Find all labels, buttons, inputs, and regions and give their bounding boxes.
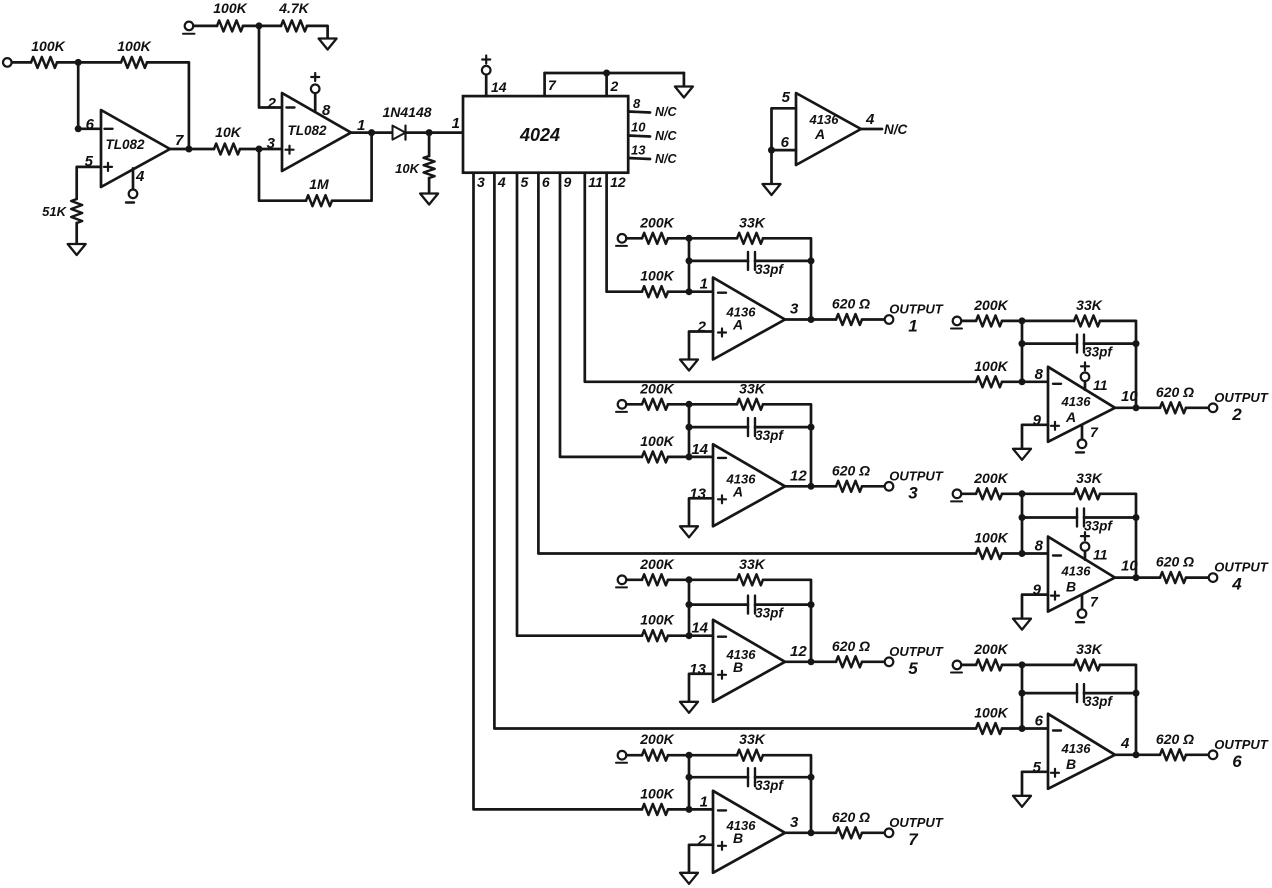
wire (stage 1) [668,290,713,293]
svg-text:1M: 1M [309,176,329,192]
svg-text:6: 6 [781,134,790,151]
wire (stage 7) [668,808,713,811]
svg-text:4.7K: 4.7K [278,0,309,16]
svg-text:100K: 100K [117,38,151,54]
OUTPUT 1 label [889,302,944,336]
node junction [368,129,375,136]
svg-text:9: 9 [564,174,572,190]
svg-text:33K: 33K [1076,470,1103,486]
wire (stage 6) [1002,664,1074,667]
wire pin2 [259,26,282,108]
svg-text:6: 6 [86,116,95,133]
resistor 33K (stage 1) [737,214,766,244]
op-amp 4136 A (stage 1) [697,276,799,360]
svg-text:A: A [814,126,825,142]
ground (stage 1) [680,360,698,371]
wire (stage 3) [862,485,885,488]
op-amp 4136 B (stage 4) [1033,537,1139,612]
resistor 620 ohm (stage 1) [832,296,870,326]
resistor 33K (stage 6) [1074,641,1103,671]
output terminal (stage 4) [1209,573,1218,582]
node junction [426,129,433,136]
capacitor 33pf (stage 4) [1077,509,1113,534]
node junction (stage 7) [808,774,815,781]
svg-text:10: 10 [1121,388,1138,405]
wire output (stage 1) [785,318,836,321]
svg-text:2: 2 [697,832,707,849]
wire pin5 [772,108,797,184]
wire plus input (stage 3) [689,498,713,526]
V+ terminal pin11 (stage 4) [1081,532,1090,551]
svg-text:A: A [732,483,743,499]
svg-text:100K: 100K [974,705,1008,721]
OUTPUT 4 label [1214,560,1269,594]
wire (stage 5) [668,578,737,581]
svg-text:200K: 200K [973,641,1008,657]
node junction (stage 2) [1019,340,1026,347]
wire plus input (stage 6) [1022,772,1048,796]
node junction (stage 2) [1019,317,1026,324]
svg-text:1: 1 [908,317,917,336]
svg-text:8: 8 [1035,538,1044,555]
wire from 4024 pin (stage 4) [538,173,976,554]
wire (stage 1) [627,237,643,240]
node junction (stage 4) [1133,574,1140,581]
wire pin14 [485,75,488,97]
terminal (stage 7) [616,751,627,763]
svg-text:33pf: 33pf [755,606,784,621]
svg-text:33pf: 33pf [755,262,784,277]
node junction (stage 4) [1019,490,1026,497]
node junction (stage 5) [808,658,815,665]
resistor 200K (stage 5) [639,556,674,586]
wire (stage 5) [862,660,885,663]
terminal (stage 5) [616,576,627,588]
op-amp 4136 B (stage 5) [689,620,807,702]
resistor 620 ohm (stage 2) [1156,384,1194,414]
node junction (stage 5) [808,601,815,608]
node junction [603,70,610,77]
wire node column (stage 6) [1021,665,1024,729]
wire [78,62,101,128]
wire output (stage 7) [785,831,836,834]
resistor 100K (stage 1) [640,268,674,298]
node junction (stage 6) [1019,725,1026,732]
svg-text:620 Ω: 620 Ω [1156,554,1194,570]
OUTPUT 5 label [889,644,944,678]
wire pin8 [314,93,317,112]
wire output (stage 5) [785,660,836,663]
node junction (stage 7) [808,829,815,836]
svg-text:10K: 10K [395,161,420,176]
node junction (stage 3) [686,401,693,408]
op-amp 4136 A (stage 2) [1033,366,1139,442]
resistor 620 ohm (stage 3) [832,462,870,492]
pin 8 stub N/C [628,96,677,119]
wire (stage 7) [627,754,643,757]
op-amp 4136 A unused [781,89,875,165]
svg-text:14: 14 [491,79,507,95]
svg-text:33pf: 33pf [755,778,784,793]
svg-text:4: 4 [135,168,145,185]
node junction (stage 1) [686,257,693,264]
svg-text:7: 7 [175,132,184,149]
wire [683,73,686,87]
wire (stage 7) [763,755,811,833]
pin 5 label [521,174,529,190]
svg-text:14: 14 [691,441,708,458]
wire [240,148,282,151]
wire (stage 5) [627,578,643,581]
node junction (stage 5) [686,632,693,639]
capacitor 33pf (stage 6) [1077,684,1113,709]
V- terminal pin4 [126,190,137,203]
svg-text:33pf: 33pf [1084,694,1113,709]
resistor 200K (stage 2) [973,297,1008,327]
wire feedback [259,149,306,201]
node junction (stage 4) [1019,514,1026,521]
pin 4 label [497,174,506,190]
svg-text:33K: 33K [739,731,766,747]
svg-text:2: 2 [1231,405,1242,424]
wire from 4024 pin (stage 6) [494,173,976,729]
wire (stage 3) [668,403,737,406]
resistor 200K (stage 6) [973,641,1008,671]
ground [420,194,438,205]
resistor 51K [42,199,82,223]
output terminal (stage 2) [1209,404,1218,413]
svg-text:7: 7 [1090,424,1099,440]
node junction (stage 5) [686,601,693,608]
svg-text:11: 11 [1093,547,1108,563]
wire V- pin7 (stage 4) [1081,595,1084,610]
pin 11 label [588,174,603,190]
wire (stage 4) [962,492,977,495]
svg-text:33K: 33K [739,380,766,396]
wire plus input (stage 7) [689,845,713,873]
svg-text:1: 1 [700,276,708,293]
wire (stage 1) [862,318,885,321]
op-amp 4136 B (stage 6) [1033,713,1130,789]
svg-text:8: 8 [633,96,641,111]
svg-text:200K: 200K [973,470,1008,486]
svg-text:200K: 200K [639,731,674,747]
capacitor 33pf (stage 2) [1077,335,1113,360]
wire (stage 7) [689,776,748,779]
svg-text:N/C: N/C [655,129,678,143]
svg-text:620 Ω: 620 Ω [832,296,870,312]
output terminal (stage 6) [1209,751,1218,760]
svg-text:13: 13 [689,661,706,678]
wire from 4024 pin (stage 3) [560,173,642,457]
svg-text:TL082: TL082 [105,137,145,152]
svg-text:8: 8 [1035,366,1044,383]
wire node column (stage 5) [688,580,691,636]
wire (stage 4) [1022,516,1077,519]
wire [406,131,464,134]
pin 7 label (stage 4) [1090,594,1099,610]
node junction (stage 3) [686,453,693,460]
node junction (stage 2) [1019,378,1026,385]
ground (stage 4) [1013,619,1031,630]
wire V+ pin11 (stage 2) [1084,381,1087,390]
svg-text:100K: 100K [640,268,674,284]
wire V+ pin11 (stage 4) [1084,551,1087,560]
wire (stage 5) [668,634,713,637]
output terminal (stage 7) [885,829,894,838]
wire output (stage 6) [1115,753,1160,756]
wire plus input (stage 4) [1022,595,1048,619]
wire from 4024 pin (stage 2) [585,173,976,382]
resistor 33K (stage 3) [737,380,766,410]
svg-text:B: B [1066,756,1076,772]
ground [68,244,86,255]
node 1 label [452,115,460,132]
wire [307,26,328,39]
wire (stage 1) [668,237,737,240]
svg-text:6: 6 [1232,752,1242,771]
capacitor 33pf (stage 1) [748,252,784,277]
svg-text:11: 11 [1093,377,1108,393]
node junction (stage 6) [1019,661,1026,668]
svg-text:100K: 100K [974,530,1008,546]
svg-text:OUTPUT: OUTPUT [889,644,944,659]
svg-text:620 Ω: 620 Ω [832,638,870,654]
resistor 200K (stage 7) [639,731,674,761]
node junction (stage 1) [808,316,815,323]
V+ terminal pin8 [311,73,320,93]
svg-text:5: 5 [521,174,529,190]
pin 3 label [477,174,485,190]
svg-text:10: 10 [1121,558,1138,575]
svg-text:100K: 100K [974,358,1008,374]
OUTPUT 7 label [889,815,944,849]
wire [75,223,78,244]
ground [319,39,337,50]
pin 10 stub N/C [628,120,677,144]
node junction (stage 4) [1019,550,1026,557]
wire from 4024 pin (stage 1) [607,173,642,292]
wire pin2 [605,73,608,96]
OUTPUT 3 label [889,468,944,502]
resistor 100K (stage 5) [640,612,674,642]
wire output (stage 4) [1115,576,1160,579]
svg-text:4136: 4136 [1061,564,1092,579]
svg-text:13: 13 [689,485,706,502]
output terminal (stage 3) [885,482,894,491]
resistor 100K (stage 3) [640,433,674,463]
wire (stage 1) [763,238,811,319]
node junction (stage 3) [686,424,693,431]
wire [428,133,431,156]
wire (stage 2) [962,320,977,323]
wire (stage 1) [689,260,748,263]
svg-text:4: 4 [497,174,506,190]
svg-text:100K: 100K [640,433,674,449]
svg-text:12: 12 [610,174,626,190]
wire output (stage 2) [1115,406,1160,409]
node junction (stage 1) [686,235,693,242]
wire (stage 2) [1100,321,1136,408]
wire (stage 4) [1002,492,1074,495]
terminal (stage 1) [616,234,627,246]
IC 4024 [463,96,628,173]
resistor 620 ohm (stage 6) [1156,731,1194,761]
svg-text:7: 7 [1090,594,1099,610]
svg-text:1: 1 [700,793,708,810]
wire (stage 5) [689,603,748,606]
op-amp 4136 B (stage 7) [697,791,799,873]
wire (stage 7) [668,754,737,757]
svg-text:4136: 4136 [1061,394,1092,409]
svg-text:3: 3 [790,301,799,318]
wire (stage 6) [1100,665,1136,755]
wire (stage 3) [763,404,811,486]
resistor 620 ohm (stage 5) [832,638,870,668]
svg-text:100K: 100K [640,612,674,628]
wire V- pin7 (stage 2) [1081,425,1084,440]
svg-text:1N4148: 1N4148 [382,104,431,120]
wire node column (stage 4) [1021,494,1024,554]
ground (stage 7) [680,873,698,884]
svg-text:4: 4 [865,111,875,128]
wire [332,133,372,201]
wire (stage 6) [962,664,977,667]
svg-text:33pf: 33pf [755,428,784,443]
svg-text:OUTPUT: OUTPUT [889,468,944,483]
node junction (stage 6) [1133,751,1140,758]
svg-text:2: 2 [610,78,619,94]
wire [243,25,281,28]
svg-text:33pf: 33pf [1084,345,1113,360]
diode 1N4148 [382,104,431,140]
wire (stage 6) [1002,727,1048,730]
terminal [183,22,195,34]
V- terminal pin7 (stage 4) [1076,609,1086,622]
wire (stage 2) [1084,342,1136,345]
svg-text:5: 5 [908,659,918,678]
node junction [75,125,82,132]
wire node column (stage 1) [688,238,691,291]
wire output [170,148,214,151]
svg-text:33pf: 33pf [1084,519,1113,534]
node junction (stage 5) [686,576,693,583]
wire (stage 4) [1186,576,1209,579]
svg-text:N/C: N/C [655,152,678,166]
wire (stage 3) [755,426,811,429]
node junction (stage 6) [1133,690,1140,697]
svg-text:200K: 200K [639,380,674,396]
svg-text:200K: 200K [639,556,674,572]
node junction [768,147,775,154]
wire plus input (stage 5) [689,674,713,702]
pin 13 stub N/C [628,143,677,167]
resistor 33K (stage 4) [1074,470,1103,500]
node junction [185,146,192,153]
svg-text:9: 9 [1033,412,1042,429]
svg-text:N/C: N/C [884,122,908,137]
svg-text:B: B [733,659,743,675]
wire (stage 2) [1002,380,1048,383]
OUTPUT 2 label [1214,390,1269,424]
pin 6 label [542,174,550,190]
svg-text:A: A [1065,409,1076,425]
pin 14 label [491,79,507,95]
svg-text:12: 12 [790,643,807,660]
svg-text:200K: 200K [973,297,1008,313]
svg-text:2: 2 [267,95,277,112]
resistor 10K [395,156,434,178]
wire (stage 4) [1002,552,1048,555]
resistor 10K [214,124,242,155]
ground (stage 6) [1013,796,1031,807]
svg-text:4136: 4136 [1061,741,1092,756]
svg-text:100K: 100K [213,0,247,16]
resistor 33K (stage 7) [737,731,766,761]
input terminal [3,58,12,67]
resistor 620 ohm (stage 4) [1156,554,1194,584]
wire (stage 2) [1022,342,1077,345]
svg-text:620 Ω: 620 Ω [1156,384,1194,400]
node junction (stage 7) [686,806,693,813]
svg-text:33K: 33K [1076,297,1103,313]
pin 2 label [610,78,619,94]
node junction [75,59,82,66]
resistor 620 ohm (stage 7) [832,809,870,839]
svg-text:100K: 100K [640,785,674,801]
node junction (stage 6) [1019,690,1026,697]
node junction (stage 4) [1133,514,1140,521]
svg-text:3: 3 [790,814,799,831]
node junction [256,146,263,153]
svg-text:3: 3 [908,483,918,502]
node junction (stage 3) [808,483,815,490]
resistor 200K (stage 3) [639,380,674,410]
svg-text:7: 7 [548,77,557,93]
op-amp U1A TL082 [85,110,184,187]
pin 11 label (stage 2) [1093,377,1108,393]
resistor 200K (stage 4) [973,470,1008,500]
svg-text:OUTPUT: OUTPUT [1214,390,1269,405]
terminal (stage 6) [951,661,962,673]
capacitor 33pf (stage 5) [748,596,784,621]
wire (stage 6) [1022,692,1077,695]
ground [763,184,781,195]
wire output (stage 3) [785,485,836,488]
OUTPUT 6 label [1214,737,1269,771]
wire [147,62,189,149]
svg-text:4024: 4024 [519,125,560,145]
pin 11 label (stage 4) [1093,547,1108,563]
node junction (stage 7) [686,752,693,759]
resistor 100K (stage 6) [974,705,1008,735]
resistor 100K input [31,38,66,68]
svg-text:51K: 51K [42,204,67,219]
resistor 100K (stage 7) [640,785,674,815]
resistor 33K (stage 5) [737,556,766,586]
N/C label [884,122,908,137]
V+ terminal pin14 [482,56,491,75]
svg-text:5: 5 [782,89,791,106]
wire (stage 2) [1186,406,1209,409]
wire pin5 [77,167,101,199]
wire [194,25,218,28]
pin 7 label [548,77,557,93]
svg-text:4136: 4136 [809,112,840,127]
svg-text:7: 7 [908,830,919,849]
svg-text:10: 10 [631,120,646,135]
capacitor 33pf (stage 7) [748,768,784,793]
